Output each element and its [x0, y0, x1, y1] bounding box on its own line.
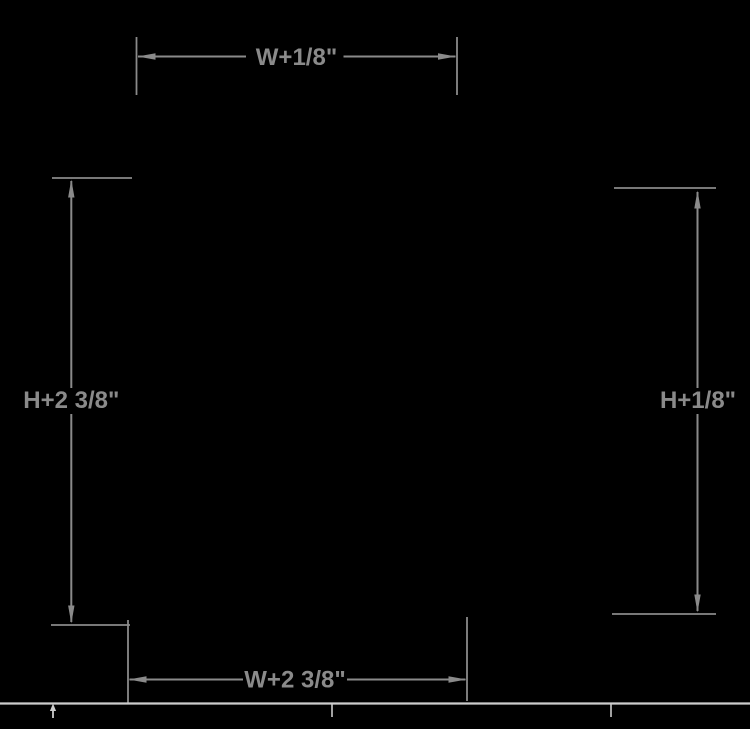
- dimension W+1/8 top: dimension line right segment: [344, 56, 456, 58]
- dimension H+2 3/8 left: dimension line upper segment: [70, 181, 72, 388]
- dimension W+1/8 top: extension line right: [456, 37, 458, 95]
- dimension W+2 3/8 bottom: extension line left: [127, 620, 129, 703]
- dimension W+2 3/8 bottom: left arrowhead: [129, 676, 147, 682]
- dimension W+1/8 top: dimension line left segment: [138, 56, 246, 58]
- dimension W+2 3/8 bottom: extension line right: [466, 617, 468, 701]
- dimension H+1/8 right: dimension line upper segment: [697, 192, 699, 388]
- baseline leader arrow stem: [52, 708, 54, 718]
- svg-text:H+2 3/8": H+2 3/8": [23, 387, 119, 414]
- dimension H+1/8 right: up arrowhead: [694, 191, 700, 209]
- baseline tick center: [331, 704, 333, 717]
- svg-text:W+1/8": W+1/8": [256, 44, 337, 71]
- svg-text:W+2 3/8": W+2 3/8": [244, 667, 345, 694]
- dimension W+1/8 top: left arrowhead: [138, 53, 156, 59]
- dimension H+1/8 right: extension line bottom: [612, 613, 716, 615]
- dimension H+2 3/8 left: extension line bottom: [51, 624, 130, 626]
- dimension W+2 3/8 bottom: dimension line right segment: [347, 679, 466, 681]
- dimension W+2 3/8 bottom: right arrowhead: [449, 676, 467, 682]
- dimension H+1/8 right: dimension line lower segment: [697, 414, 699, 611]
- dimension H+2 3/8 left: down arrowhead: [68, 606, 74, 624]
- baseline leader arrowhead: [50, 704, 56, 712]
- baseline tick right: [610, 704, 612, 717]
- dimension W+2 3/8 bottom: dimension line left segment: [130, 679, 244, 681]
- dimension W+1/8 top: extension line left: [136, 37, 138, 95]
- dimension H+2 3/8 left: dimension line lower segment: [70, 414, 72, 622]
- baseline sill line: [0, 702, 750, 704]
- dimension H+1/8 right: down arrowhead: [694, 595, 700, 613]
- white footer strip: [0, 729, 750, 750]
- dimension H+2 3/8 left: extension line top: [52, 177, 132, 179]
- dimension W+1/8 top: right arrowhead: [438, 53, 456, 59]
- svg-text:H+1/8": H+1/8": [660, 387, 736, 414]
- dimension H+2 3/8 left: up arrowhead: [68, 180, 74, 198]
- dimension H+1/8 right: extension line top: [614, 187, 716, 189]
